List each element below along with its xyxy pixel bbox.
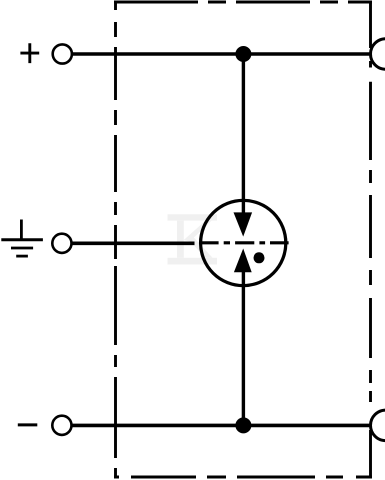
wire: vertical from arrester down to bottom rail bbox=[242, 272, 245, 426]
enclosure dash-dot border: bottom side bbox=[114, 476, 372, 479]
label + (positive terminal) bbox=[20, 43, 39, 63]
junction node: top rail bbox=[235, 46, 251, 62]
enclosure dash-dot border: left side bbox=[114, 1, 117, 479]
wire: vertical from top rail down to arrester bbox=[242, 54, 245, 213]
wire: bottom rail (-) from terminal to right output bbox=[73, 424, 371, 428]
surge arrester U1: upper electrode arrow (points down) bbox=[234, 212, 253, 236]
terminal circle - input bbox=[52, 416, 71, 435]
label - (negative terminal) bbox=[18, 423, 38, 426]
enclosure dash-dot border: right side bbox=[369, 1, 372, 479]
terminal circle ground input bbox=[52, 234, 71, 253]
surge arrester U1: gas-filled indicator dot bbox=[254, 252, 265, 263]
surge arrester U1: circle body bbox=[201, 200, 286, 285]
surge arrester U1: dash-dot centre line bbox=[200, 241, 289, 244]
wire: top rail (+) from terminal to right output bbox=[73, 52, 371, 56]
ground symbol bbox=[1, 220, 43, 257]
surge arrester U1: lower electrode arrow (points up) bbox=[234, 249, 252, 273]
output terminal circle top right bbox=[371, 39, 385, 70]
wire: middle rail (ground) from terminal to arrester bbox=[72, 242, 195, 246]
watermark K logo bbox=[168, 214, 218, 264]
output terminal circle bottom right bbox=[371, 410, 385, 441]
terminal circle + input bbox=[53, 44, 72, 63]
enclosure dash-dot border: top side bbox=[114, 1, 372, 4]
junction node: bottom rail bbox=[235, 417, 251, 433]
